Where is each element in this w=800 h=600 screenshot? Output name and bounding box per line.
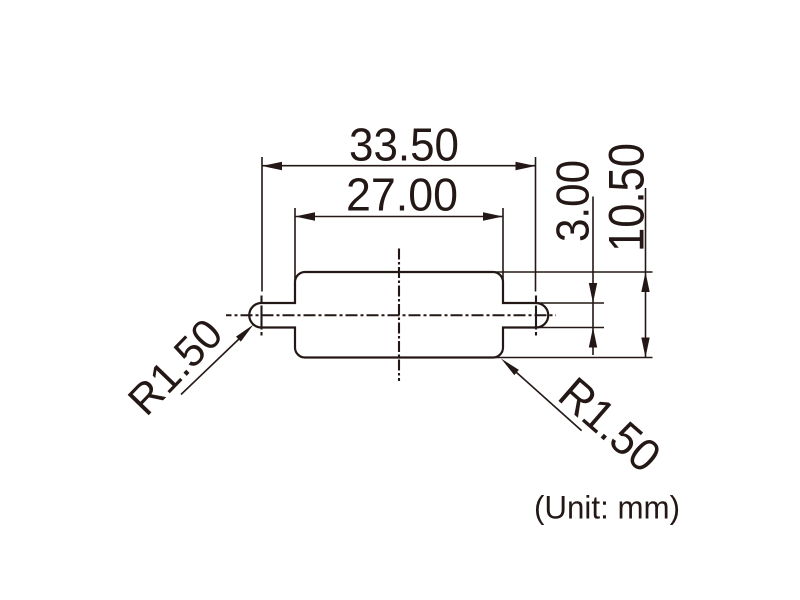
dimension 10.50 text (rotated) [599, 143, 655, 252]
dimension 33.50 line [262, 165, 536, 167]
svg-text:R1.50: R1.50 [120, 310, 233, 424]
dimension 27.00 line [295, 216, 503, 218]
part outline (slot body with rounded ends) [249, 272, 548, 358]
dimension 3.00 text (rotated) [547, 160, 599, 242]
vertical center line [398, 249, 400, 382]
radius leader R1.50 left line [181, 338, 240, 395]
dimension 10.50 extension line bottom [490, 357, 653, 359]
radius leader R1.50 right line [516, 372, 582, 431]
right tab center-line cross [535, 296, 537, 336]
dimension 10.50 line [645, 188, 647, 358]
horizontal center line [226, 314, 556, 316]
dimension 33.50 extension line left [261, 157, 263, 292]
dimension 27.00 extension line left [294, 208, 296, 282]
radius label R1.50 right text (rotated) [549, 367, 671, 482]
dimension 33.50 right arrow [516, 162, 536, 170]
dimension 27.00 extension line right [502, 208, 504, 282]
left tab center-line cross [260, 296, 262, 336]
dimension 33.50 extension line right [535, 157, 537, 292]
dimension 10.50 extension line top [490, 271, 653, 273]
dimension 27.00 text [346, 168, 458, 220]
dimension 3.00 extension line top [536, 302, 604, 304]
radius leader R1.50 left arrow [236, 325, 254, 342]
dimension 3.00 line [592, 197, 594, 356]
dimension 33.50 left arrow [262, 162, 282, 170]
svg-text:3.00: 3.00 [547, 160, 599, 242]
dimension 27.00 right arrow [483, 212, 503, 220]
svg-text:27.00: 27.00 [346, 168, 458, 220]
svg-text:33.50: 33.50 [349, 119, 459, 171]
dimension 33.50 text [349, 119, 459, 171]
svg-text:10.50: 10.50 [599, 143, 655, 252]
unit note [534, 490, 680, 526]
svg-text:(Unit: mm): (Unit: mm) [534, 490, 680, 526]
dimension 10.50 lower arrow (points down) [641, 338, 649, 358]
svg-text:R1.50: R1.50 [549, 367, 671, 482]
dimension 27.00 left arrow [295, 212, 315, 220]
radius leader R1.50 right arrow [501, 359, 519, 376]
dimension 3.00 extension line bottom [536, 327, 604, 329]
dimension 3.00 lower arrow (points up) [589, 328, 597, 348]
radius label R1.50 left text (rotated) [120, 310, 233, 424]
dimension 3.00 upper arrow (points down) [589, 283, 597, 303]
dimension 10.50 upper arrow (points up) [641, 272, 649, 292]
